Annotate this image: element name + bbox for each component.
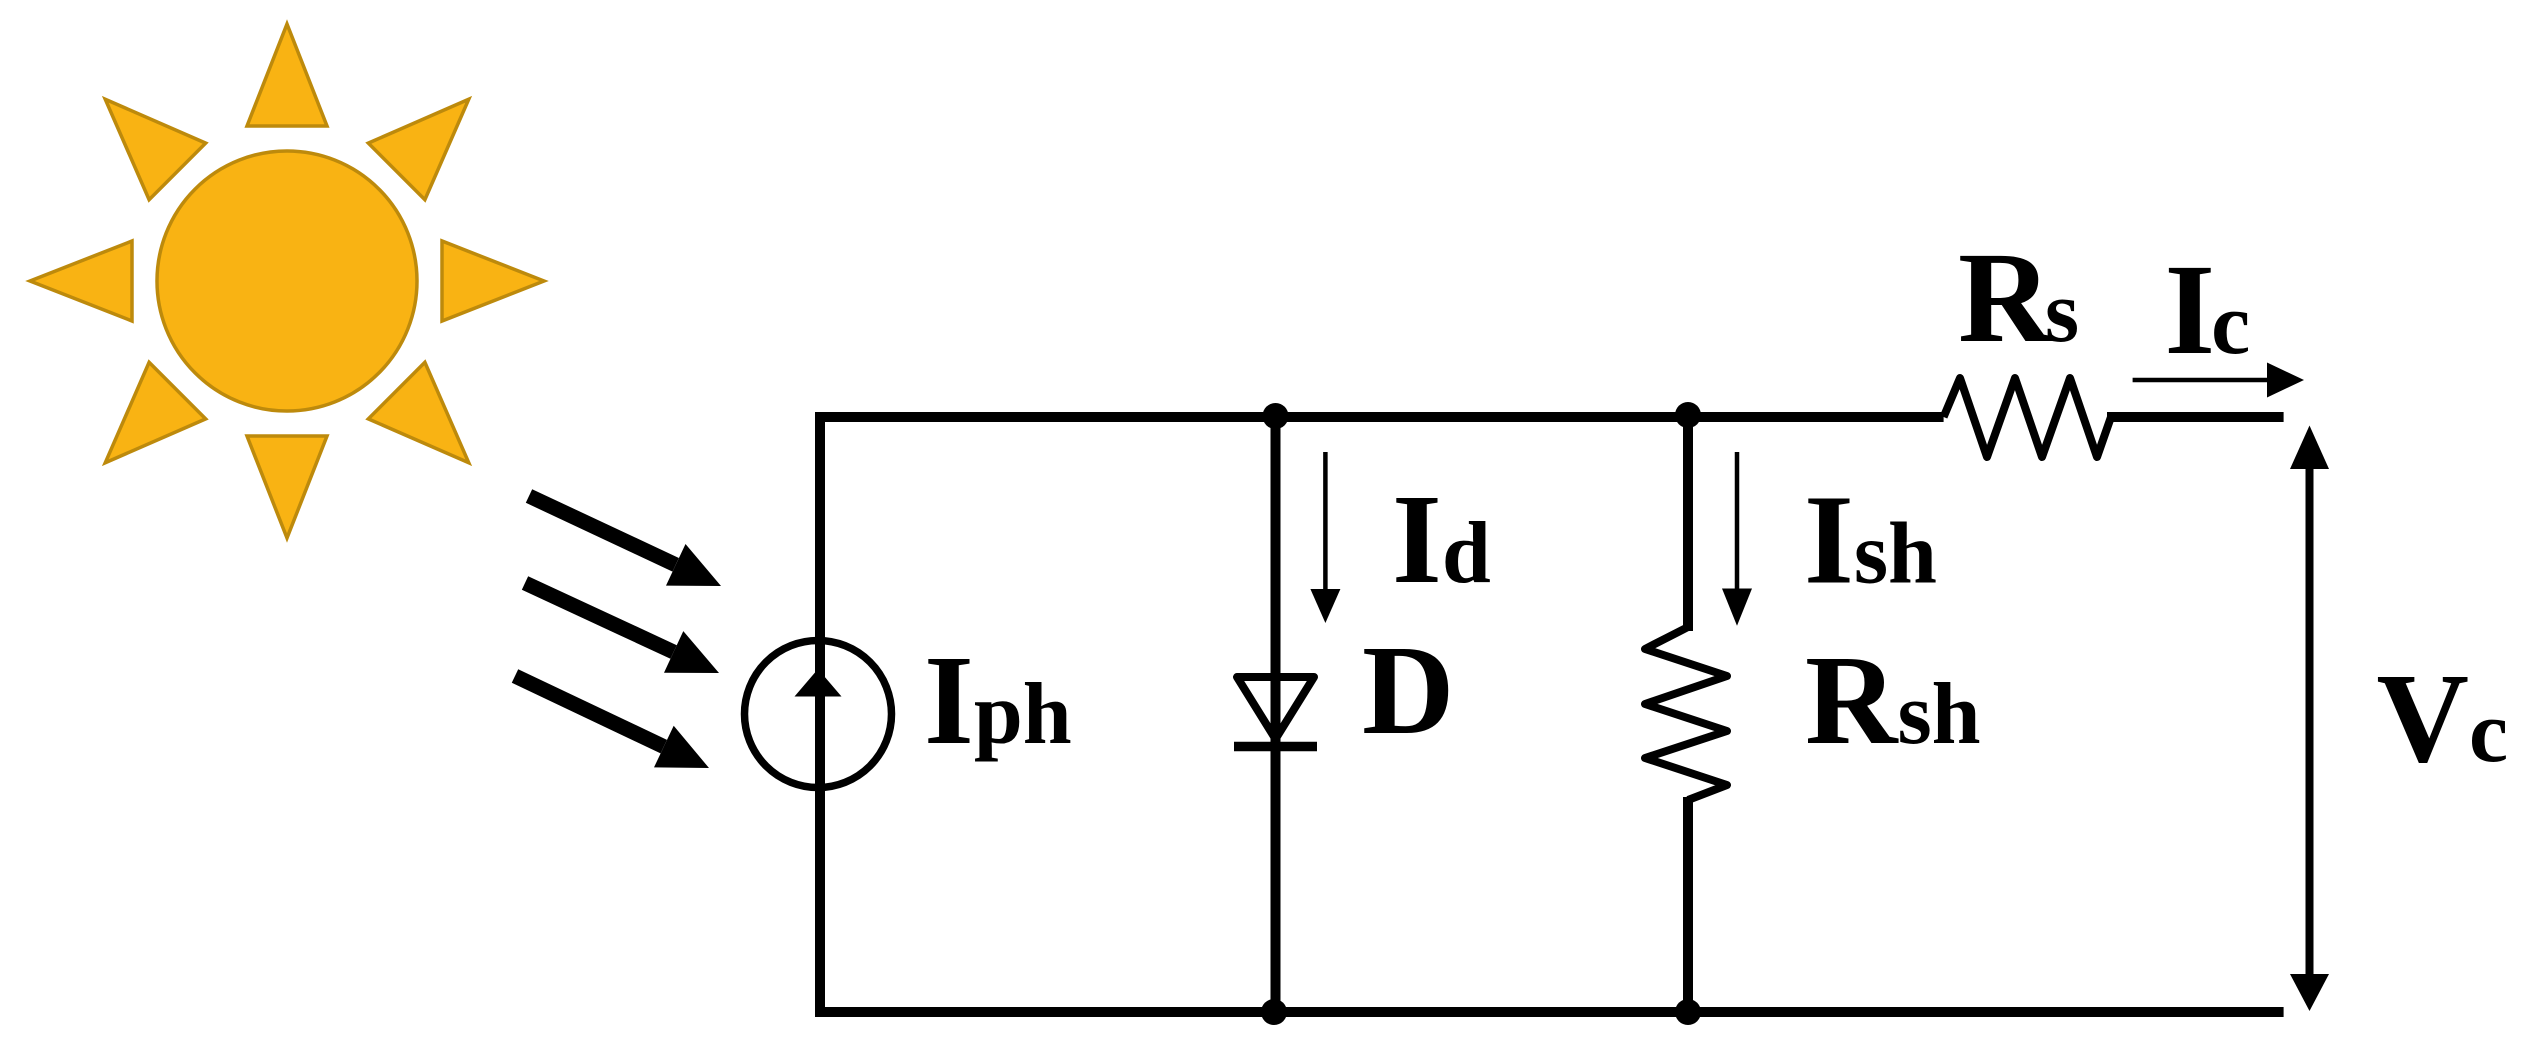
node: top diode junction bbox=[1263, 403, 1289, 429]
svg-text:Rs: Rs bbox=[1958, 226, 2079, 370]
svg-text:Ish: Ish bbox=[1804, 469, 1937, 611]
svg-text:Id: Id bbox=[1392, 468, 1491, 610]
light ray arrow 2 bbox=[525, 583, 719, 673]
svg-text:Rsh: Rsh bbox=[1805, 629, 1981, 771]
wire: diode branch bbox=[1271, 417, 1281, 1012]
wire: top rail left of Rs bbox=[815, 412, 1944, 422]
diode D symbol bbox=[1234, 677, 1317, 747]
node: top shunt junction bbox=[1675, 402, 1701, 428]
wire: top rail right of Rs bbox=[2107, 412, 2284, 422]
svg-text:Vc: Vc bbox=[2377, 647, 2509, 789]
svg-text:D: D bbox=[1362, 619, 1454, 761]
svg-text:Ic: Ic bbox=[2165, 238, 2251, 382]
light ray arrow 1 bbox=[529, 496, 721, 586]
node: bottom diode junction bbox=[1261, 999, 1287, 1025]
resistor Rsh (shunt) bbox=[1645, 627, 1727, 800]
arrow: Ish current bbox=[1722, 452, 1752, 626]
current source Iph symbol bbox=[745, 641, 892, 788]
wire: shunt branch upper segment bbox=[1683, 417, 1693, 631]
light ray arrow 3 bbox=[515, 676, 709, 768]
arrow: Vc voltage (double-headed) bbox=[2290, 426, 2329, 1012]
sun icon bbox=[30, 24, 544, 538]
wire: left branch + bottom rail bbox=[820, 417, 2284, 1012]
svg-text:Iph: Iph bbox=[924, 629, 1072, 771]
node: bottom shunt junction bbox=[1675, 999, 1701, 1025]
resistor Rs (series) bbox=[1944, 378, 2111, 457]
arrow: Id current bbox=[1310, 452, 1340, 623]
wire: shunt branch lower segment bbox=[1683, 797, 1693, 1012]
arrow: Ic current bbox=[2133, 363, 2304, 398]
